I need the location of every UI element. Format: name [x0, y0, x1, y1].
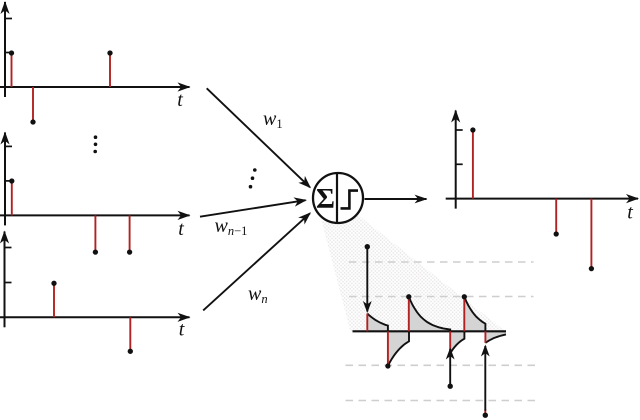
inset membrane potential axis — [353, 330, 507, 332]
inset dashed level line 4 — [346, 400, 536, 402]
PSP kernel 4 (down, mid) fill — [450, 331, 464, 353]
PSP kernel 1 (up, small) weighted spike stem — [366, 314, 368, 332]
output spike down o2 — [555, 199, 557, 234]
weight arrow w_n-1 from train 2 to neuron — [200, 200, 306, 217]
ellipsis dots between train 1 and train 2 — [94, 135, 98, 139]
inset incoming spike arrow C (up) — [484, 409, 486, 415]
output train vertical axis — [455, 111, 457, 209]
PSP kernel 5 (up) weighted spike stem — [463, 297, 465, 332]
PSP kernel 2 (down) outline curve — [388, 331, 409, 366]
output spike down o3 — [590, 199, 592, 269]
svg-text:t: t — [179, 319, 185, 341]
inset dashed level line 3 — [346, 364, 536, 366]
inset dashed level line 1 — [349, 261, 534, 263]
inset incoming spike arrow B (up) — [449, 349, 451, 386]
svg-text:t: t — [627, 202, 633, 224]
PSP kernel 5 (up) outline curve — [464, 297, 485, 332]
magnifier beam from neuron to inset — [322, 216, 506, 332]
neuron divider line — [336, 174, 338, 223]
input train 3 vertical axis — [4, 232, 6, 328]
input train 2 vertical axis — [4, 133, 6, 226]
input train 1 tick 2 — [5, 18, 12, 20]
neuron body circle U1 — [313, 173, 363, 223]
diagonal ellipsis dots before neuron — [253, 168, 257, 172]
input train 2 tick 2 — [5, 145, 12, 147]
PSP kernel 6 (down, small) outline curve — [485, 335, 506, 343]
output spike up o1 — [472, 130, 474, 199]
weight arrow w1 from train 1 to neuron — [207, 88, 310, 187]
PSP kernel 5 (up) peak dot — [462, 294, 467, 299]
output arrow from neuron — [365, 198, 427, 200]
input train 1 vertical axis — [4, 2, 6, 97]
input train 1 tick 1 — [5, 52, 12, 54]
train1 spike up s1 — [11, 53, 13, 87]
train3 spike down s2 — [129, 317, 131, 351]
svg-text:t: t — [178, 218, 184, 240]
PSP kernel 2 (down) peak dot — [385, 363, 390, 368]
train2 spike up s1 — [11, 181, 13, 215]
PSP kernel 1 (up, small) outline curve — [367, 314, 388, 332]
input train 3 tick 1 — [5, 282, 12, 284]
output train tick 1 — [456, 163, 463, 165]
PSP kernel 5 (up) fill — [464, 297, 485, 332]
inset dashed level line 2 — [349, 296, 534, 298]
weight arrow w_n from train 3 to neuron — [203, 213, 310, 310]
PSP kernel 3 (up) fill — [409, 297, 450, 332]
svg-text:w1: w1 — [263, 108, 283, 131]
PSP kernel 6 (down, small) fill — [485, 331, 506, 343]
PSP kernel 6 (down, small) weighted spike stem — [484, 331, 486, 343]
PSP kernel 1 (up, small) fill — [367, 314, 388, 332]
output train tick 2 — [456, 129, 463, 131]
train2 spike down s2 — [94, 215, 96, 252]
PSP kernel 4 (down, mid) weighted spike stem — [449, 331, 451, 353]
inset incoming spike arrow A (down) — [366, 247, 368, 312]
input train 3 tick 2 — [5, 247, 12, 249]
svg-text:t: t — [177, 89, 183, 111]
PSP kernel 3 (up) weighted spike stem — [408, 297, 410, 332]
input train 1 horizontal axis (time) — [0, 86, 190, 88]
PSP kernel 2 (down) weighted spike stem — [387, 331, 389, 366]
train1 spike up s3 — [109, 53, 111, 87]
train3 spike up s1 — [53, 283, 55, 317]
input train 3 horizontal axis (time) — [0, 316, 190, 318]
neuron threshold step symbol — [341, 191, 359, 209]
train1 spike down s2 — [32, 87, 34, 122]
PSP kernel 3 (up) outline curve — [409, 297, 450, 332]
PSP kernel 4 (down, mid) outline curve — [450, 331, 464, 353]
input train 2 horizontal axis (time) — [0, 214, 190, 216]
PSP kernel 2 (down) fill — [388, 331, 409, 366]
input train 2 tick 1 — [5, 180, 12, 182]
svg-text:Σ: Σ — [316, 183, 335, 215]
svg-text:wn−1: wn−1 — [215, 215, 248, 238]
svg-text:wn: wn — [248, 283, 268, 306]
train2 spike down s3 — [129, 215, 131, 252]
PSP kernel 3 (up) peak dot — [406, 294, 411, 299]
output train horizontal axis (time) — [446, 198, 638, 200]
